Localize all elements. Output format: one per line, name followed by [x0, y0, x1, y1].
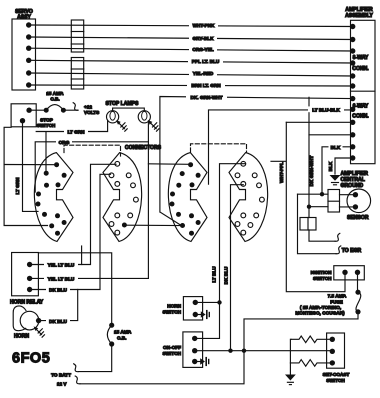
junction BLK / sensor wire: [320, 192, 324, 196]
sensor inline connector (2 cavities): [328, 190, 340, 213]
wire 12V feed to fuse: [57, 312, 358, 387]
wire DK BLU horn to relay branch: [39, 290, 78, 324]
svg-text:ORG-YEL: ORG-YEL: [192, 47, 213, 52]
junction DK GRN-WHT / sensor wire: [307, 205, 311, 209]
resistor lower: [290, 360, 332, 367]
svg-text:DK BLU: DK BLU: [223, 266, 228, 284]
wire fan2 notch contact down to horn relay dk-blu: [30, 174, 111, 289]
amplifier connector pins (12): [350, 24, 355, 161]
wire BLK sensor feed to 6-way pin5: [322, 144, 353, 194]
amplifier assembly box: [345, 7, 375, 164]
junction 12V riser / on-off wire: [242, 349, 246, 353]
svg-text:TO BATT: TO BATT: [51, 372, 71, 377]
svg-text:STOP: STOP: [40, 118, 53, 123]
junction DK BLU / on-off wire: [228, 349, 232, 353]
set-coast terminals: [330, 337, 335, 366]
svg-text:WHT-PNK: WHT-PNK: [193, 23, 215, 28]
wire sensor connector left upper: [298, 193, 329, 195]
wire LT GRN stop switch lower terminal down to fan1: [15, 121, 38, 212]
wire to EGR lower: [298, 194, 362, 254]
amplifier central ground symbol: [330, 171, 369, 189]
svg-text:12 V: 12 V: [57, 382, 68, 387]
stop lamps label: [106, 101, 140, 107]
wire label WHT-PNK: [189, 22, 218, 29]
svg-text:WHT-PPL: WHT-PPL: [279, 162, 284, 183]
wire lamp right down to connector fan2: [147, 121, 149, 278]
svg-text:BRN LT. GRN: BRN LT. GRN: [191, 83, 221, 88]
svg-text:15 AMP.: 15 AMP.: [114, 330, 131, 335]
wire horn relay yel-lt-blu up to fan2 top contact: [30, 164, 116, 264]
ignition switch box: [311, 266, 365, 281]
svg-text:DK. GRN-WHT: DK. GRN-WHT: [190, 95, 222, 100]
wire stub to fan3 top contact: [148, 163, 189, 166]
horn relay box: [10, 253, 44, 306]
wire label GRY-BLK: [189, 34, 217, 41]
svg-text:HORN: HORN: [167, 303, 181, 308]
EGR inline connector (2 cavities): [300, 218, 316, 231]
svg-text:YEL-RED: YEL-RED: [193, 71, 214, 76]
svg-text:ON-OFF: ON-OFF: [163, 345, 181, 350]
connector fan2 (steering wheel plug, mating side): [103, 153, 142, 242]
servo assembly box SERVO ASSY: [12, 9, 36, 90]
connector fan1 (steering wheel plug, wire side): [34, 153, 73, 242]
fan1 contacts: [36, 162, 67, 236]
wire stub fan1 bottom tip: [81, 246, 83, 265]
stop lamp left: [107, 108, 145, 123]
mating dash lines pair 2: [191, 144, 247, 153]
svg-text:LT GRN: LT GRN: [67, 130, 85, 135]
stop switch box: [11, 104, 56, 128]
svg-text:SWITCH: SWITCH: [163, 309, 182, 314]
svg-text:SWITCH: SWITCH: [163, 351, 182, 356]
resistor upper: [291, 336, 332, 343]
svg-text:VOLTS: VOLTS: [84, 110, 99, 115]
wire LT BLU fan4 contact to horn switch and on-off switch: [195, 164, 246, 339]
svg-text:HORN RELAY: HORN RELAY: [10, 300, 44, 306]
horn switch box: [163, 297, 203, 320]
svg-text:ASSY: ASSY: [17, 14, 31, 20]
svg-text:( 15 AMP.-TORINO,: ( 15 AMP.-TORINO,: [300, 305, 341, 310]
svg-text:GRY-BLK: GRY-BLK: [193, 36, 215, 41]
wire label PPL LT BLU: [188, 58, 223, 65]
stop lamp left ground arrow: [116, 120, 127, 131]
connector fan4 (mating side): [229, 153, 268, 242]
horn switch terminals: [193, 300, 198, 318]
svg-text:C.B.: C.B.: [117, 336, 126, 341]
wire horn relay feed bus to circuit breaker: [38, 253, 111, 325]
svg-text:SWITCH: SWITCH: [326, 378, 345, 383]
fuse 7.5 AMP: [295, 272, 360, 315]
svg-text:DK BLU: DK BLU: [49, 288, 67, 293]
fan2 contacts: [109, 161, 138, 235]
circuit breaker 15 AMP C.B. (top): [29, 91, 64, 110]
wire YEL-RED servo pin5 to amplifier: [29, 73, 353, 76]
svg-text:SENSOR: SENSOR: [347, 215, 369, 221]
wire PPL LT BLU servo pin4 to amplifier: [29, 60, 353, 63]
svg-text:CONN.: CONN.: [352, 114, 369, 120]
wire far-left from stop switch down to fan1 lower contact: [4, 127, 47, 225]
stop lamp right ground arrow: [148, 120, 159, 131]
wire fan2 contact to fan3 contact: [124, 224, 181, 226]
svg-text:BLK: BLK: [328, 161, 333, 171]
wire LT BLU-BLK fan3 to 6-way pin2: [209, 106, 353, 184]
svg-text:+12: +12: [84, 105, 92, 110]
wire label YEL-RED: [189, 69, 217, 76]
wire label ORG-YEL: [189, 46, 217, 53]
svg-text:MONTEGO, COUGAR): MONTEGO, COUGAR): [295, 311, 345, 316]
inline connector stack upper (3 cavities): [71, 20, 83, 52]
svg-text:STOP LAMPS: STOP LAMPS: [106, 101, 140, 107]
wire label DK GRN-WHT: [186, 94, 227, 101]
on-off switch contact symbol: [195, 358, 209, 366]
wire label YEL LT BLU 1: [44, 262, 78, 268]
on-off switch terminals: [192, 336, 197, 365]
wire TO BATT to circuit breaker: [51, 344, 112, 377]
wire DK BLU fan4 contact to on-off middle: [223, 185, 243, 351]
wire to +12 volts: [63, 103, 99, 115]
ignition switch terminals: [342, 270, 360, 275]
svg-text:YEL LT BLU: YEL LT BLU: [48, 277, 75, 282]
horn terminal: [36, 318, 41, 323]
mating dash lines pair 1: [64, 145, 121, 156]
wire label BRN LT GRN: [187, 81, 225, 88]
svg-text:GROUND: GROUND: [341, 183, 364, 189]
connector fan3 (wire side): [168, 153, 207, 242]
svg-text:FUSE: FUSE: [330, 299, 343, 304]
svg-text:SWITCH: SWITCH: [37, 123, 56, 128]
wire BRN LT GRN servo pin6 to amplifier: [29, 85, 353, 86]
wire DK GRN-WHT to amplifier 6-way pin1: [160, 97, 353, 226]
wire to EGR upper: [309, 230, 340, 241]
wire WHT-PNK servo pin1 to amplifier: [29, 25, 353, 27]
inline connector stack lower (3 cavities): [71, 58, 83, 90]
svg-text:TO EGR: TO EGR: [342, 248, 362, 254]
wire resistors to ground: [289, 339, 292, 374]
wire fan2 contact to horn relay yel-lt-blu 2: [30, 277, 149, 279]
set-coast switch box: [323, 333, 350, 383]
svg-text:YEL LT BLU: YEL LT BLU: [48, 263, 75, 268]
wire to 6-way pin4: [309, 134, 353, 136]
set-coast ground symbol: [285, 375, 296, 385]
stop switch terminals: [20, 108, 32, 124]
svg-text:CONNECTORS: CONNECTORS: [125, 145, 162, 151]
connectors label: [125, 145, 162, 151]
svg-text:LT BLU: LT BLU: [212, 266, 217, 283]
svg-text:SWITCH: SWITCH: [313, 276, 332, 281]
svg-text:C.B.: C.B.: [50, 97, 59, 102]
junction horn switch / LT BLU: [217, 300, 221, 304]
horn relay terminals: [27, 262, 32, 292]
6FO5 figure number: [12, 351, 50, 367]
svg-text:LT GRN: LT GRN: [15, 177, 20, 195]
wire GRY-BLK servo pin2 to amplifier: [29, 37, 353, 40]
svg-text:ASSEMBLY: ASSEMBLY: [345, 13, 373, 19]
fan3 contacts: [170, 162, 201, 236]
wire sensor connector left lower: [309, 206, 328, 208]
wire ORG-YEL servo pin3 to amplifier: [29, 48, 353, 51]
svg-text:CONN.: CONN.: [352, 66, 369, 72]
wire BLK 6-way pin6 to amplifier central ground: [328, 158, 353, 174]
horn switch contact symbol: [195, 311, 209, 319]
stop lamp right: [138, 111, 150, 123]
svg-text:HORN: HORN: [14, 334, 29, 340]
wire fan1 top contact from left: [4, 164, 57, 166]
wire on-off middle to set-coast switch: [195, 350, 333, 352]
svg-text:PPL LT. BLU: PPL LT. BLU: [192, 59, 220, 64]
wire WHT-PPL fan4 to ignition switch: [271, 122, 345, 291]
servo terminal pins (6): [26, 22, 31, 87]
wire fan4 to 6-way pin3: [286, 121, 352, 123]
wire label YEL LT BLU 2: [44, 276, 78, 282]
svg-text:SET-COAST: SET-COAST: [323, 372, 350, 377]
svg-text:DK BLU: DK BLU: [49, 319, 67, 324]
fan4 contacts: [235, 161, 264, 235]
svg-text:6FO5: 6FO5: [12, 351, 50, 367]
wire label DK BLU (relay): [46, 287, 70, 293]
svg-text:BLK: BLK: [331, 145, 341, 150]
wire LT GRN stop switch to stop lamp: [36, 121, 107, 135]
svg-text:LT BLU-BLK: LT BLU-BLK: [312, 108, 340, 113]
svg-text:15 AMP.: 15 AMP.: [46, 91, 63, 96]
wire DK GRN-WHT branch down to EGR connector: [309, 97, 314, 217]
sensor: [340, 189, 371, 221]
horn ground arrow: [34, 326, 45, 337]
circuit breaker 15 AMP C.B. (lower): [107, 325, 131, 344]
horn: [13, 306, 39, 340]
svg-text:7.5 AMP.: 7.5 AMP.: [328, 294, 347, 299]
svg-text:DK GRN-WHT: DK GRN-WHT: [309, 156, 314, 187]
svg-text:ORG: ORG: [59, 140, 70, 145]
svg-text:IGNITION: IGNITION: [311, 270, 332, 275]
on-off switch box: [163, 332, 203, 368]
wire ORG to stop lamp right: [35, 132, 148, 192]
svg-text:8-WAY: 8-WAY: [353, 55, 369, 61]
